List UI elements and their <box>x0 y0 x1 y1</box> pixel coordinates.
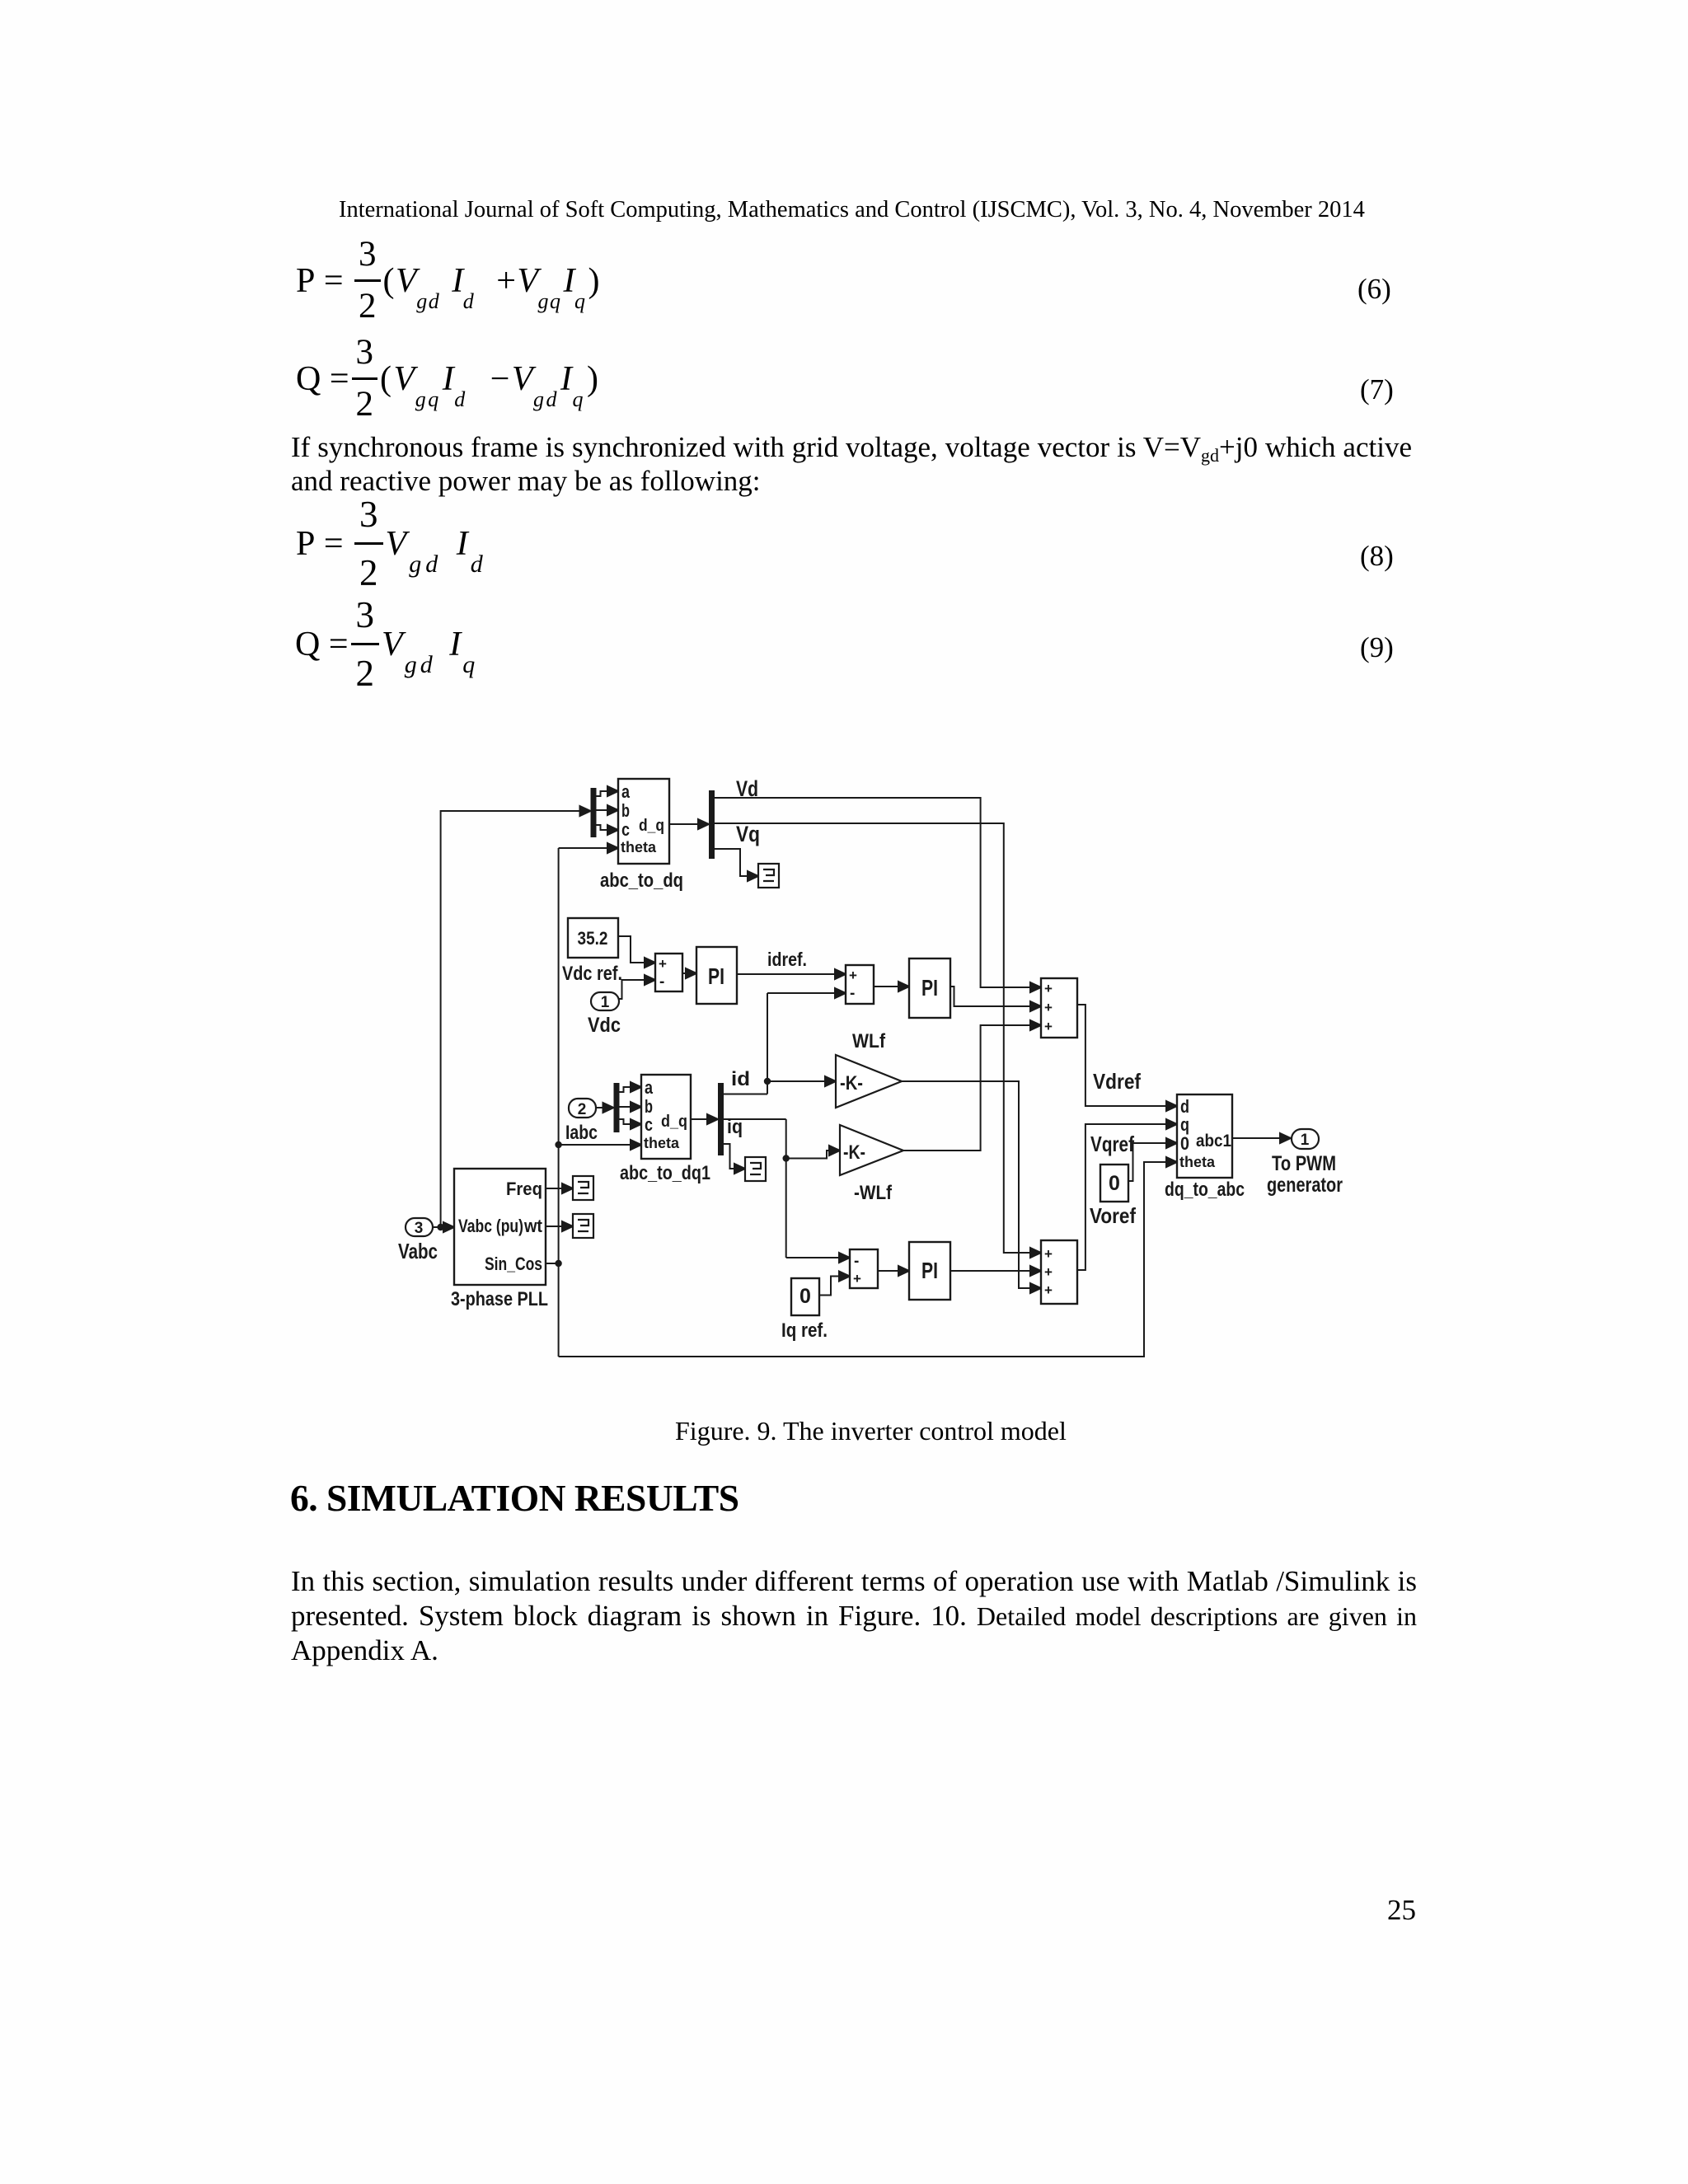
wire PI3 to sum3bot <box>950 1266 1041 1276</box>
svg-text:WLf: WLf <box>852 1030 886 1052</box>
inport 1 Vdc <box>591 992 619 1011</box>
svg-text:dq_to_abc: dq_to_abc <box>1165 1179 1245 1201</box>
paragraph 1 <box>291 430 1412 472</box>
inport 3 Vabc <box>406 1218 433 1237</box>
wire Vdref sum3top to d input <box>1077 1005 1177 1111</box>
demux bar for Vd Vq <box>709 790 715 859</box>
svg-text:+: + <box>659 956 667 972</box>
svg-text:a: a <box>621 781 631 802</box>
wire demux2 third output to scope <box>724 1144 745 1174</box>
block PI2 <box>909 958 950 1018</box>
scope wt <box>573 1214 593 1238</box>
demux bar for id iq <box>718 1083 724 1155</box>
svg-text:Vdc: Vdc <box>588 1014 621 1037</box>
wire sum4 to PI3 <box>878 1266 909 1276</box>
block dq_to_abc <box>1177 1094 1232 1178</box>
scope after Vq demux <box>758 864 779 888</box>
wire mux2 stub b <box>620 1102 642 1112</box>
wire abc1 output to outport <box>1232 1133 1291 1143</box>
wire demux1 third output to scope <box>715 849 758 881</box>
svg-text:Sin_Cos: Sin_Cos <box>485 1254 542 1274</box>
svg-text:+: + <box>849 968 857 983</box>
wire mux1 stub a <box>597 786 619 796</box>
constant 0 Voref <box>1100 1165 1128 1202</box>
block PI1 <box>696 947 737 1004</box>
svg-text:3-phase PLL: 3-phase PLL <box>451 1288 548 1310</box>
scope after iq demux <box>745 1157 766 1181</box>
sum3 bottom q-axis adder <box>1041 1240 1077 1304</box>
section heading <box>290 1476 739 1520</box>
svg-text:PI: PI <box>708 963 724 989</box>
svg-text:-: - <box>659 973 664 991</box>
sum block Vdc ref minus Vdc <box>655 954 682 991</box>
wire 35.2 to sum plus <box>618 936 655 968</box>
wire wt to scope <box>546 1221 573 1231</box>
sum block iq ref minus iq <box>850 1249 878 1288</box>
wire -WLf out to sum3top <box>903 1020 1041 1151</box>
svg-text:+: + <box>1044 981 1053 996</box>
svg-text:PI: PI <box>921 1258 938 1283</box>
wire iq from demux <box>724 1119 850 1263</box>
svg-text:+: + <box>1044 1264 1053 1280</box>
svg-text:-K-: -K- <box>840 1072 863 1094</box>
wire Sin_Cos to theta bus <box>546 1261 561 1266</box>
block 3-phase PLL <box>454 1169 546 1285</box>
svg-text:0: 0 <box>799 1285 811 1308</box>
svg-text:+: + <box>1044 1282 1053 1298</box>
wire theta into abc_to_dq1 <box>556 1140 641 1150</box>
wire Vabc input to PLL <box>433 1222 454 1232</box>
svg-text:Vabc (pu): Vabc (pu) <box>458 1216 523 1236</box>
svg-text:1: 1 <box>1301 1132 1310 1149</box>
label (9) <box>1360 631 1394 664</box>
svg-text:To PWM: To PWM <box>1272 1152 1336 1175</box>
wire theta bus vertical <box>558 848 560 1357</box>
sum block idref minus id <box>846 965 874 1004</box>
mux bar for abc_to_dq1 <box>614 1083 620 1132</box>
svg-text:PI: PI <box>921 975 938 1001</box>
svg-text:Iq ref.: Iq ref. <box>781 1319 828 1342</box>
svg-text:Voref: Voref <box>1090 1203 1136 1228</box>
label (7) <box>1360 373 1394 406</box>
mux bar for abc_to_dq <box>591 788 597 837</box>
svg-text:q: q <box>1180 1114 1189 1135</box>
wire Iabc to mux2 <box>596 1103 614 1113</box>
svg-text:theta: theta <box>644 1135 680 1151</box>
svg-text:0: 0 <box>1180 1133 1189 1154</box>
inport 2 Iabc <box>569 1099 596 1118</box>
svg-text:Freq: Freq <box>506 1179 542 1199</box>
svg-text:+: + <box>1044 1246 1053 1262</box>
block abc_to_dq <box>618 779 669 864</box>
svg-text:3: 3 <box>415 1220 424 1237</box>
svg-text:abc_to_dq: abc_to_dq <box>600 869 683 892</box>
svg-text:-: - <box>854 1253 859 1270</box>
gain WLf <box>836 1055 902 1108</box>
svg-text:abc_to_dq1: abc_to_dq1 <box>620 1162 710 1184</box>
outport 1 To PWM <box>1292 1129 1319 1149</box>
svg-text:idref.: idref. <box>767 949 807 970</box>
gain -WLf <box>840 1125 903 1175</box>
block abc_to_dq1 <box>641 1075 691 1159</box>
svg-text:Vq: Vq <box>736 822 760 846</box>
svg-text:c: c <box>645 1114 653 1135</box>
equation 9 <box>295 603 480 686</box>
wire mux1 stub c <box>597 825 619 835</box>
svg-text:+: + <box>1044 1019 1053 1034</box>
wire Vdc to sum minus <box>619 975 655 999</box>
svg-text:Vdref: Vdref <box>1093 1069 1141 1094</box>
block constant 35.2 <box>568 918 618 958</box>
wire Vabc branch up to abc mux <box>441 806 591 1227</box>
svg-text:wt: wt <box>523 1216 542 1236</box>
header line <box>339 197 1365 223</box>
wire Voref to 0 input <box>1128 1138 1177 1181</box>
svg-text:generator: generator <box>1267 1174 1343 1197</box>
sum3 top d-axis adder <box>1041 978 1077 1038</box>
block PI3 <box>909 1242 950 1300</box>
wire Iq ref to sum4 plus <box>819 1272 850 1296</box>
paragraph 2 <box>291 1564 1417 1598</box>
equation 6 <box>296 243 601 319</box>
svg-text:theta: theta <box>621 839 657 855</box>
svg-text:Vdc ref.: Vdc ref. <box>562 963 622 985</box>
svg-text:Vqref: Vqref <box>1090 1132 1134 1156</box>
wire mux2 stub c <box>620 1119 642 1129</box>
wire sum2 to PI2 <box>874 982 909 991</box>
wire Vd <box>715 798 1041 992</box>
svg-text:a: a <box>645 1077 654 1098</box>
wire WLf out to sum3bot <box>902 1081 1041 1293</box>
svg-text:Vd: Vd <box>736 776 758 801</box>
svg-text:id: id <box>731 1068 750 1090</box>
wire PI2 to sum3top <box>950 987 1041 1011</box>
wire theta into abc_to_dq <box>559 843 618 853</box>
equation 7 <box>296 341 601 417</box>
svg-text:d_q: d_q <box>661 1113 687 1131</box>
wire mux1 stub b <box>597 805 619 815</box>
scope Freq <box>573 1176 593 1200</box>
label (6) <box>1357 273 1391 306</box>
constant 0 Iq ref <box>791 1278 819 1315</box>
wire sum1 to PI1 <box>682 968 696 978</box>
svg-text:d_q: d_q <box>639 817 664 835</box>
svg-text:2: 2 <box>578 1101 587 1118</box>
wire id from demux <box>724 988 846 1094</box>
svg-text:abc1: abc1 <box>1196 1132 1231 1151</box>
svg-text:Iabc: Iabc <box>565 1122 598 1144</box>
figure caption <box>675 1414 1067 1448</box>
svg-text:0: 0 <box>1109 1172 1120 1195</box>
svg-text:+: + <box>1044 1000 1053 1015</box>
svg-text:35.2: 35.2 <box>578 928 608 949</box>
label (8) <box>1360 540 1394 573</box>
svg-text:theta: theta <box>1179 1154 1216 1170</box>
equation 8 <box>296 503 489 585</box>
svg-text:-: - <box>850 985 855 1002</box>
wire d_q output of abc_to_dq <box>669 819 709 829</box>
wire Vq <box>715 823 1041 1258</box>
svg-text:b: b <box>621 800 630 821</box>
svg-text:-K-: -K- <box>843 1141 865 1164</box>
svg-text:+: + <box>853 1271 861 1286</box>
svg-text:1: 1 <box>601 994 610 1011</box>
wire idref PI1 to sum2 <box>737 969 846 979</box>
svg-text:c: c <box>621 819 630 840</box>
wire d_q output of abc_to_dq1 <box>691 1114 718 1124</box>
wire theta bus bottom run to dq_to_abc <box>559 1157 1177 1357</box>
wire Freq to scope <box>546 1183 573 1193</box>
page number <box>1387 1893 1416 1927</box>
wire q sum3bot to q input <box>1077 1119 1177 1270</box>
wire mux2 stub a <box>620 1082 642 1092</box>
svg-text:iq: iq <box>727 1116 743 1138</box>
svg-text:-WLf: -WLf <box>854 1182 893 1204</box>
svg-text:Vabc: Vabc <box>398 1239 438 1263</box>
